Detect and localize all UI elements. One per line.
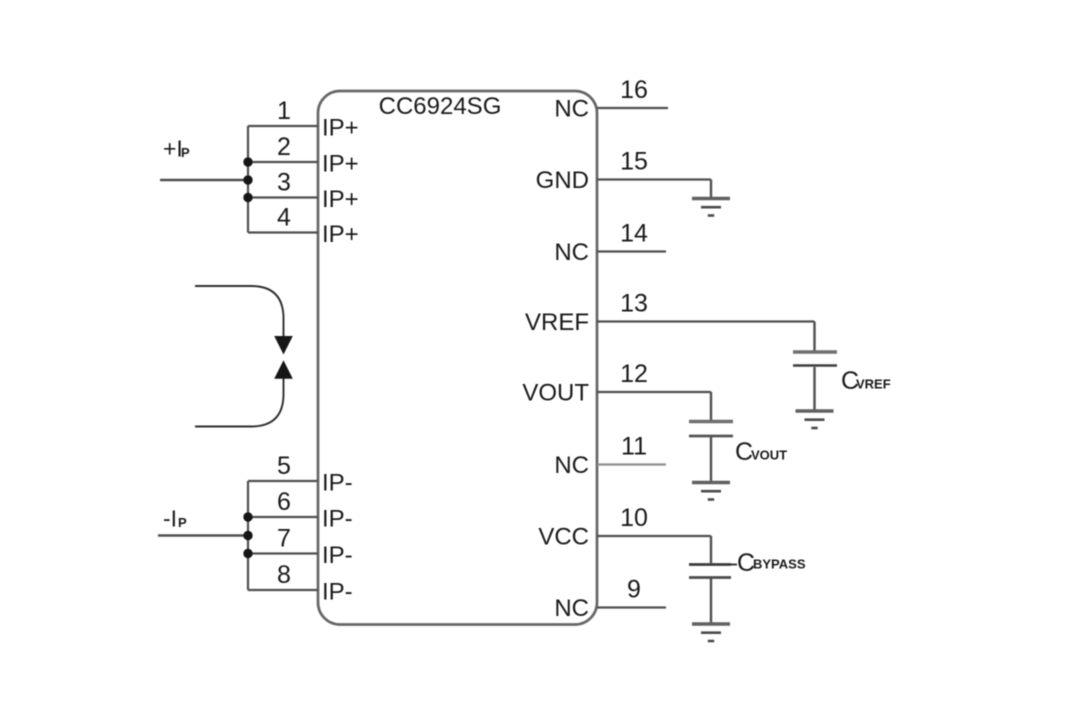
svg-text:10: 10 [620, 504, 648, 532]
wire bus pins 1-4 [247, 126, 249, 233]
svg-text:IP-: IP- [322, 470, 353, 497]
svg-text:+I: +I [163, 136, 183, 162]
wire pin 12 [597, 391, 711, 393]
svg-text:2: 2 [277, 133, 291, 161]
svg-text:5: 5 [277, 452, 291, 480]
capacitor C_BYPASS [689, 563, 731, 566]
svg-text:12: 12 [620, 360, 648, 388]
node junction dot pin2 [243, 157, 252, 166]
wire bus pins 5-8 [247, 481, 249, 590]
svg-text:IP-: IP- [322, 542, 353, 569]
node junction dot pin3 [243, 193, 252, 202]
wire VCC drop [710, 536, 712, 563]
svg-text:IP-: IP- [322, 506, 353, 533]
svg-text:4: 4 [277, 204, 291, 232]
svg-text:NC: NC [554, 595, 589, 622]
wire pin 1 [248, 125, 318, 127]
svg-text:IP+: IP+ [322, 151, 359, 178]
svg-text:13: 13 [620, 290, 648, 318]
node junction dot +IP [243, 175, 252, 184]
svg-text:IP+: IP+ [322, 115, 359, 142]
wire pin 5 [248, 480, 318, 482]
wire pin 6 [248, 516, 318, 518]
wire pin 15 [597, 178, 711, 180]
wire VOUT drop [710, 392, 712, 421]
svg-text:3: 3 [277, 169, 291, 197]
wire -IP input [158, 534, 248, 536]
svg-text:15: 15 [620, 148, 648, 176]
wire pin 3 [248, 196, 318, 198]
svg-text:IP-: IP- [322, 579, 353, 606]
wire pin 2 [248, 161, 318, 163]
current flow arrow curve [195, 286, 284, 427]
svg-text:1: 1 [277, 97, 291, 125]
wire pin 4 [248, 231, 318, 233]
capacitor C_VOUT [689, 420, 733, 423]
svg-text:CC6924SG: CC6924SG [379, 93, 502, 120]
ground C_BYPASS [692, 624, 730, 641]
svg-text:VREF: VREF [856, 377, 891, 392]
svg-text:NC: NC [554, 239, 589, 266]
svg-text:NC: NC [554, 452, 589, 479]
wire +IP input [160, 179, 248, 181]
capacitor C_VREF [793, 350, 837, 354]
ground C_VREF [796, 411, 834, 428]
svg-text:GND: GND [536, 167, 589, 194]
svg-text:NC: NC [554, 96, 589, 123]
svg-text:P: P [181, 145, 190, 160]
svg-text:P: P [178, 515, 187, 530]
node junction dot -IP [243, 531, 252, 540]
wire pin 14 [597, 250, 666, 252]
svg-text:9: 9 [627, 576, 641, 604]
wire pin 9 [597, 606, 666, 608]
wire pin 7 [248, 552, 318, 554]
arrowhead up [274, 360, 293, 379]
arrowhead down [274, 336, 293, 355]
svg-text:IP+: IP+ [322, 186, 359, 213]
svg-text:16: 16 [620, 76, 648, 104]
svg-text:IP+: IP+ [322, 221, 359, 248]
wire VREF drop [813, 322, 815, 352]
svg-text:VCC: VCC [538, 524, 589, 551]
svg-text:11: 11 [621, 433, 647, 461]
svg-text:-I: -I [163, 506, 177, 532]
svg-text:6: 6 [277, 488, 291, 516]
svg-text:7: 7 [277, 525, 291, 553]
ground GND pin15 [692, 199, 730, 216]
IC U1 CC6924SG body [318, 91, 597, 625]
wire pin 13 [597, 320, 815, 322]
wire pin 16 [597, 107, 668, 109]
wire pin 11 [597, 463, 666, 465]
wire pin 8 [248, 589, 318, 591]
node junction dot pin7 [243, 549, 252, 558]
svg-text:VREF: VREF [525, 309, 589, 336]
wire GND drop [710, 180, 712, 199]
svg-text:8: 8 [277, 561, 291, 589]
svg-text:BYPASS: BYPASS [753, 557, 806, 572]
ground C_VOUT [692, 483, 730, 500]
svg-text:VOUT: VOUT [751, 448, 787, 463]
svg-text:VOUT: VOUT [522, 380, 589, 407]
svg-text:14: 14 [620, 220, 648, 248]
node junction dot pin6 [243, 512, 252, 521]
wire pin 10 [597, 535, 711, 537]
